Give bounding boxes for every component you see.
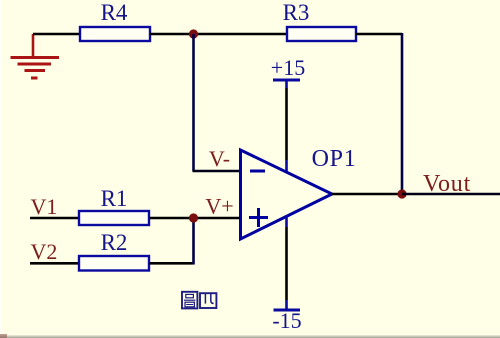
node C junction dot (397, 189, 406, 198)
op-amp plus symbol (249, 208, 268, 227)
wire R2 up to node B (192, 218, 195, 265)
wire corner down to output node (401, 33, 404, 194)
node A junction dot (189, 29, 198, 38)
svg-text:V1: V1 (31, 194, 58, 219)
op-amp power pin stub bottom (285, 215, 288, 227)
svg-text:R2: R2 (101, 230, 128, 255)
圖 inner top small box (186, 294, 194, 297)
wire R4 to node A (150, 33, 194, 36)
resistor R1 (79, 211, 149, 225)
resistor R3 (287, 27, 356, 41)
op-amp U1 triangle (241, 150, 333, 239)
svg-text:+15: +15 (271, 55, 305, 80)
svg-text:R3: R3 (283, 0, 310, 25)
wire V- corner to op-amp inverting input (193, 170, 241, 173)
四 outer box (200, 293, 216, 308)
wire node A down to V- corner (192, 34, 195, 171)
caption 圖四 (figure four) drawn as vector strokes (182, 292, 216, 309)
圖 inner bottom box (185, 302, 194, 307)
wire R3 to corner (356, 33, 402, 36)
四 inner left stroke (204, 294, 206, 304)
svg-text:V2: V2 (31, 239, 58, 264)
ground (11, 34, 60, 78)
-15 pin stub blue bottom (285, 300, 288, 310)
node B junction dot (189, 213, 198, 222)
svg-text:R1: R1 (101, 186, 128, 211)
svg-text:Vout: Vout (423, 171, 471, 197)
+15 pin stub blue top (285, 80, 288, 88)
wire op-amp to -15 (285, 227, 288, 300)
圖 inner bottom box mid line (186, 304, 193, 306)
resistor R2 (79, 256, 149, 271)
wire V1 to R1 (30, 217, 79, 220)
四 inner right stroke (211, 294, 214, 304)
wire R1 to op-amp noninverting input (149, 217, 240, 220)
+15 power bar (273, 79, 300, 82)
wire +15 to op-amp (285, 88, 288, 160)
op-amp power pin stub top (285, 160, 288, 172)
bottom-left corner smudge (0, 334, 7, 338)
wire node C to right edge (402, 193, 500, 196)
op-amp minus symbol (250, 170, 265, 173)
wire op-amp output to node C (332, 193, 402, 196)
-15 power bar (274, 309, 301, 312)
wire node A to R3 (194, 33, 287, 36)
wire R2 right (149, 262, 194, 265)
svg-text:-15: -15 (272, 308, 301, 333)
圖 middle bar (184, 299, 195, 301)
svg-text:V+: V+ (205, 194, 233, 219)
圖 outer box (182, 292, 197, 309)
resistor R4 (80, 27, 150, 41)
svg-text:OP1: OP1 (312, 146, 357, 172)
svg-text:V-: V- (209, 146, 230, 171)
left edge sliver (0, 0, 2, 334)
wire V2 to R2 (30, 262, 79, 265)
wire ground to R4 (33, 33, 80, 36)
svg-text:R4: R4 (101, 0, 128, 25)
